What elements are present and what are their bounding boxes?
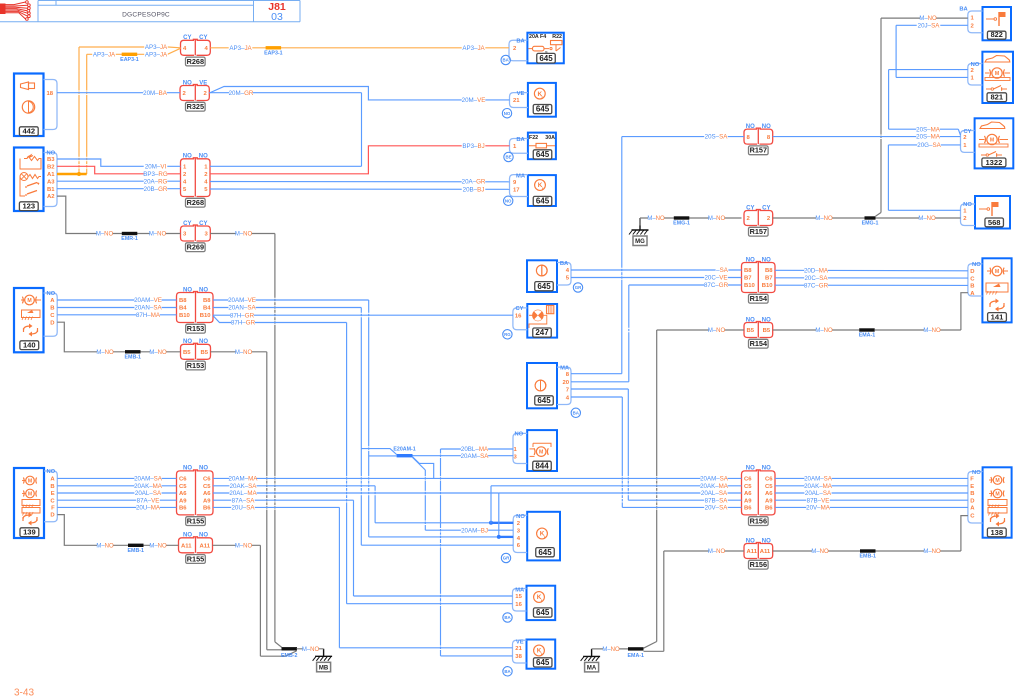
horn icon in 442 (21, 82, 29, 90)
svg-text:NO: NO (762, 124, 771, 130)
svg-text:20M–VE: 20M–VE (462, 97, 486, 104)
connector R153 (177, 293, 195, 323)
gray trunk up to 822 (876, 213, 882, 217)
svg-text:20B–GR: 20B–GR (144, 186, 168, 193)
svg-text:M–NO: M–NO (918, 216, 936, 222)
branch splice to 645 pin 3 20AM-BJ (413, 457, 426, 470)
label 844 (533, 461, 552, 470)
svg-text:A9: A9 (179, 498, 187, 504)
svg-text:M–NO: M–NO (815, 328, 833, 334)
component box 442 (horn unit) (14, 74, 44, 137)
svg-text:GR: GR (575, 285, 582, 290)
svg-text:B6: B6 (744, 506, 752, 512)
svg-text:C6: C6 (203, 477, 211, 483)
bracket 568 pins 1 2 NO (961, 204, 976, 226)
wire 20M-VI from 123 B3 (57, 159, 181, 166)
svg-text:VE: VE (199, 80, 207, 86)
svg-text:M–NO: M–NO (235, 232, 253, 238)
svg-text:20AK–MA: 20AK–MA (700, 483, 729, 490)
component box 141 (rear wiper motor) (982, 258, 1011, 322)
splice E20AM-1 (397, 454, 413, 457)
svg-text:B1: B1 (47, 187, 55, 193)
svg-text:R22: R22 (552, 34, 562, 40)
switch-flag icon in 568 (979, 208, 987, 210)
svg-text:20M–BA: 20M–BA (143, 90, 168, 97)
svg-text:B3: B3 (47, 157, 55, 163)
svg-text:645: 645 (537, 282, 551, 291)
svg-text:CY: CY (515, 306, 523, 312)
component box 140 (front wiper motor) (14, 288, 44, 352)
connector R157 top (744, 129, 757, 144)
splice EMB-1 (125, 350, 141, 353)
svg-text:20AM–VE: 20AM–VE (134, 297, 162, 304)
wire M-NO right of R153 down to EMB-2 (211, 351, 267, 353)
svg-text:645: 645 (539, 54, 553, 63)
earth code BA (571, 408, 580, 417)
connector R156 (742, 471, 758, 515)
wire 20AN-SA R153 to vertical (213, 307, 361, 309)
svg-text:568: 568 (988, 218, 1001, 227)
bracket 1322 pins 2 1 CY (961, 131, 975, 153)
UCH box 645 fuse F22 30A (528, 133, 556, 160)
earth code NO (504, 196, 513, 205)
svg-text:F: F (970, 477, 974, 483)
svg-text:NO: NO (47, 469, 56, 475)
svg-text:3-43: 3-43 (14, 688, 34, 698)
car icon in 1322 (980, 122, 1005, 129)
svg-text:M–NO: M–NO (919, 16, 937, 22)
svg-text:20AL–SA: 20AL–SA (135, 490, 162, 497)
svg-text:MA: MA (516, 174, 526, 180)
svg-text:BA: BA (516, 137, 525, 143)
earth code NO (502, 109, 511, 118)
svg-text:B: B (970, 491, 974, 497)
connector R268 top (AP3) (181, 40, 195, 55)
svg-text:M–NO: M–NO (235, 543, 253, 549)
svg-text:M–NO: M–NO (923, 549, 941, 555)
splice EMG-1 right (865, 216, 876, 219)
svg-text:B5: B5 (747, 328, 755, 334)
svg-text:20AM–BJ: 20AM–BJ (461, 527, 488, 534)
svg-text:D: D (970, 269, 974, 275)
svg-text:CY: CY (183, 35, 191, 41)
svg-text:C: C (50, 498, 55, 504)
bus row5 right R156 to 138 A 20V-MA (775, 506, 968, 508)
bus row2 20AK 139B to R155 (57, 485, 176, 487)
wire 20M-VE R325 to 645 (209, 87, 509, 100)
svg-text:20AL–SA: 20AL–SA (805, 490, 832, 497)
svg-text:NO: NO (199, 339, 208, 345)
svg-text:NO: NO (199, 466, 208, 472)
svg-text:k: k (542, 95, 544, 99)
wire 87H-GR branch to 645 pin16 (213, 316, 347, 323)
bracket 645 pin 21 VE (510, 93, 528, 108)
svg-text:20AM–SA: 20AM–SA (461, 453, 490, 460)
label 645 (535, 396, 554, 405)
label 645 (533, 196, 552, 205)
gray riser to R154 ground (644, 642, 657, 649)
svg-text:20A–RG: 20A–RG (144, 178, 168, 185)
earth code RG (503, 330, 512, 339)
svg-text:C5: C5 (765, 484, 773, 490)
svg-text:A11: A11 (760, 549, 771, 555)
component box 822 (983, 7, 1012, 40)
row2 resume to R156 (490, 486, 492, 523)
svg-text:NO: NO (514, 431, 523, 437)
svg-text:20S–MA: 20S–MA (916, 134, 941, 141)
svg-text:BA: BA (504, 669, 511, 674)
bracket 247 pin 16 CY (513, 308, 527, 330)
label 123 (19, 202, 38, 211)
bus row4 87A 139C to R155 (57, 499, 176, 501)
label 139 (20, 528, 39, 537)
svg-text:87C–GR: 87C–GR (804, 282, 829, 289)
label 1322 (982, 158, 1006, 167)
bus row1 R156 to 138 F (775, 477, 968, 479)
svg-text:B10: B10 (200, 313, 212, 319)
junction dot pin2 (489, 521, 493, 525)
svg-text:B4: B4 (203, 306, 211, 312)
wire SA 645 pin 4 to R154 B8 (571, 269, 742, 271)
svg-text:DGCPESOP9C: DGCPESOP9C (122, 12, 170, 19)
svg-text:A: A (50, 298, 55, 304)
bus row3 R155 to tap (213, 492, 499, 494)
svg-text:20G–SA: 20G–SA (917, 142, 941, 149)
svg-text:B7: B7 (744, 276, 752, 282)
svg-text:M–NO: M–NO (811, 549, 829, 555)
svg-text:B4: B4 (179, 306, 187, 312)
earth code BA (503, 667, 512, 676)
svg-text:B7: B7 (765, 276, 773, 282)
svg-text:15: 15 (515, 594, 522, 600)
svg-text:NO: NO (505, 198, 512, 203)
svg-text:NO: NO (183, 80, 192, 86)
svg-text:M–NO: M–NO (96, 232, 114, 238)
svg-text:VE: VE (517, 91, 525, 97)
wiper-washer icon in 141 (986, 283, 1008, 292)
connector R268 main (181, 159, 195, 197)
wire 20M-GR R325 to R268 (209, 92, 361, 94)
motor icons in 138 (993, 476, 1002, 485)
branch to splice upper (361, 449, 396, 455)
label 568 (985, 218, 1004, 227)
resistor icon in 247 (547, 305, 554, 313)
svg-text:B8: B8 (765, 268, 773, 274)
svg-text:B: B (50, 306, 54, 312)
svg-text:M–NO: M–NO (708, 216, 726, 222)
svg-text:EMB-1: EMB-1 (125, 354, 142, 360)
bus row4 right R156 to 138 D 87B-VE (775, 499, 968, 501)
svg-text:MA: MA (515, 588, 525, 594)
wire 20B-GR from 123 B1 (57, 188, 181, 190)
svg-text:NO: NO (746, 317, 755, 323)
title block frame (38, 0, 300, 2)
svg-text:16: 16 (515, 314, 522, 320)
svg-text:C6: C6 (765, 477, 773, 483)
bus row4 R155 to 645 pin 15 (213, 499, 354, 501)
bus row3 R156 to 138 B (775, 492, 968, 494)
wire 87H-GR R153 to 247 pin 16 (213, 314, 513, 316)
svg-text:M: M (995, 269, 999, 275)
svg-text:NO: NO (963, 202, 972, 208)
svg-text:AP3–JA: AP3–JA (145, 44, 168, 51)
switch icon in 1322 (981, 154, 986, 156)
svg-text:20AL–SA: 20AL–SA (701, 490, 728, 497)
wire M-NO ground MG to R157 (640, 217, 742, 219)
svg-text:645: 645 (536, 658, 550, 667)
svg-text:R269: R269 (187, 243, 204, 252)
wire M-NO from 140 D to EMB-1 (57, 322, 180, 352)
svg-text:B5: B5 (763, 328, 771, 334)
wire AP3-JA vertical 2 (86, 54, 88, 90)
wire M-NO ground MA to EMA-1 (592, 648, 628, 650)
wire 20BL-MA riser to 844 pin 1 (440, 449, 442, 454)
wire 20C-SA R154 to 141 C (775, 277, 968, 279)
svg-text:M–NO: M–NO (708, 328, 726, 334)
svg-text:NO: NO (762, 538, 771, 544)
svg-text:B6: B6 (179, 506, 187, 512)
wiper-washer icon in 140 (22, 310, 41, 318)
svg-text:M–NO: M–NO (923, 328, 941, 334)
wire M-NO from 123 A2 (57, 196, 181, 233)
component box 568 (975, 196, 1010, 229)
gray riser to R156 ground (644, 650, 664, 652)
svg-text:BA: BA (573, 410, 580, 415)
wire AP3-JA right of R268 with splice EAP3-1 (210, 47, 509, 49)
bracket 645 pins 21 38 VE (513, 640, 527, 663)
svg-text:BE: BE (505, 155, 511, 160)
svg-text:D: D (50, 320, 54, 326)
svg-text:NO: NO (47, 151, 56, 157)
svg-text:645: 645 (536, 105, 550, 114)
svg-text:30A: 30A (545, 135, 555, 141)
svg-text:NO: NO (746, 124, 755, 130)
svg-text:BP3–RG: BP3–RG (143, 171, 168, 178)
svg-text:A3: A3 (47, 179, 55, 185)
bus row5 R155 to 645 pin 21 (213, 506, 339, 508)
bus row5 20U 139F to R155 (57, 506, 176, 508)
bus row1 20AM 139A to R155 (57, 477, 176, 479)
fan motor icon (533, 310, 544, 321)
svg-text:87A–VE: 87A–VE (137, 497, 160, 504)
label 645 (536, 548, 555, 557)
svg-text:BP3–BJ: BP3–BJ (462, 143, 484, 150)
svg-text:20B–BJ: 20B–BJ (463, 186, 485, 193)
svg-text:CY: CY (746, 205, 754, 211)
svg-text:D: D (970, 498, 974, 504)
svg-text:20AM–VE: 20AM–VE (228, 297, 256, 304)
svg-text:R156: R156 (750, 560, 767, 569)
svg-text:B10: B10 (762, 283, 774, 289)
wire M-NO right of R156 to EMB-1 to 138 C (773, 550, 860, 552)
svg-text:A1: A1 (47, 172, 55, 178)
svg-text:NO: NO (762, 257, 771, 263)
svg-text:645: 645 (536, 608, 550, 617)
wire 20AN-SA 140 B to R153 B4 (57, 307, 176, 309)
svg-text:123: 123 (22, 202, 35, 211)
svg-text:RG: RG (504, 332, 511, 337)
washer icons in 138 (988, 500, 1007, 506)
splice EMB-2 (282, 647, 298, 650)
svg-text:B6: B6 (203, 506, 211, 512)
svg-text:20S–MA: 20S–MA (916, 126, 941, 133)
junction dot A1 (77, 172, 81, 176)
connector R156 ground (744, 544, 757, 559)
svg-text:CY: CY (199, 35, 207, 41)
svg-text:M–NO: M–NO (302, 647, 320, 653)
svg-text:NO: NO (972, 262, 981, 268)
wire M-NO EMG-1 to 568 pin 2 (876, 217, 961, 219)
svg-text:NO: NO (972, 470, 981, 476)
row3 tap down to 645 pin 4 (498, 493, 500, 537)
wire 20M-GR vertical (361, 93, 363, 167)
svg-text:A9: A9 (744, 498, 752, 504)
label 645 (533, 608, 552, 617)
earth code BA (501, 55, 510, 64)
svg-text:87H–MA: 87H–MA (136, 312, 161, 319)
svg-text:AP3–JA: AP3–JA (229, 45, 252, 52)
label 141 (988, 313, 1007, 322)
wire 20S-MA 821 pin 2 to 1322 pin 2 (889, 69, 968, 71)
bracket 645 pin 1 BA (510, 139, 528, 154)
label 138 (987, 528, 1006, 537)
svg-text:BA: BA (959, 7, 968, 13)
motor icon in 1322 (987, 134, 997, 144)
svg-text:139: 139 (23, 528, 36, 537)
wire 20S-MA R157 to 1322 pin 2 (773, 136, 961, 138)
svg-text:F22: F22 (529, 135, 538, 141)
svg-text:R156: R156 (750, 517, 767, 526)
wire A1 feed thick (57, 173, 87, 176)
svg-text:20AN–SA: 20AN–SA (134, 305, 162, 312)
wire 87H-MA 140 C to R153 B10 (57, 314, 176, 316)
svg-text:20C–SA: 20C–SA (804, 275, 828, 282)
svg-text:M: M (28, 479, 32, 485)
earth code GR (573, 283, 582, 292)
wire M-NO right of R157 to EMG-1 (773, 217, 865, 219)
svg-text:NO: NO (746, 538, 755, 544)
wire 20J-SA 822 pin 2 to 821 pin 1 (896, 24, 968, 26)
UCH box 645 relay/fuse F4 R22 (527, 33, 563, 64)
splice EMA-1 (628, 647, 644, 650)
svg-text:M–NO: M–NO (602, 647, 620, 653)
earth code BE (504, 152, 513, 161)
connector R154 ground (744, 323, 757, 338)
label 821 (987, 93, 1007, 102)
svg-text:EMB-2: EMB-2 (281, 653, 298, 659)
svg-text:BA: BA (503, 58, 510, 63)
svg-text:AP3–JA: AP3–JA (93, 51, 116, 58)
svg-text:MA: MA (560, 365, 570, 371)
branch into splice E20AM-1 (369, 455, 397, 457)
svg-text:GR: GR (503, 556, 510, 561)
splice EMB-1 right (860, 549, 876, 552)
connector R153 ground (181, 344, 195, 359)
label 442 (19, 127, 38, 136)
svg-text:M–NO: M–NO (149, 232, 167, 238)
svg-text:20M–VI: 20M–VI (145, 163, 167, 170)
svg-text:141: 141 (991, 312, 1004, 321)
connector R155 ground (179, 538, 195, 553)
svg-text:844: 844 (535, 461, 549, 470)
svg-text:NO: NO (183, 339, 192, 345)
ground MG (639, 218, 641, 230)
svg-text:EMA-1: EMA-1 (628, 653, 645, 659)
svg-text:E: E (970, 484, 974, 490)
svg-text:B6: B6 (765, 506, 773, 512)
wire 20C-VE 645 pin 5 to R154 B7 (571, 277, 742, 279)
svg-text:C: C (970, 514, 975, 520)
arrows icon in 140 (24, 326, 31, 330)
svg-text:AP3–JA: AP3–JA (462, 45, 485, 52)
branch splice to bus row1 (413, 457, 434, 479)
connector R269 (181, 226, 195, 241)
svg-text:20AK–SA: 20AK–SA (230, 483, 258, 490)
svg-text:CY: CY (183, 221, 191, 227)
wire 20A-GR to 645 pin 9 (210, 181, 510, 183)
svg-text:20D–MA: 20D–MA (804, 267, 829, 274)
svg-text:M–NO: M–NO (708, 549, 726, 555)
harness fan-out icon (0, 4, 6, 15)
svg-text:B5: B5 (200, 350, 208, 356)
svg-text:AP3–JA: AP3–JA (145, 51, 168, 58)
bracket of 123 pins (44, 153, 58, 207)
bracket of 140 pins (44, 293, 58, 336)
label 645 (533, 105, 552, 114)
wire 20AM-VE R153 to splice vertical (213, 299, 369, 301)
svg-text:16: 16 (515, 602, 522, 608)
svg-text:VE: VE (516, 640, 524, 646)
svg-text:20AM–SA: 20AM–SA (134, 476, 163, 483)
svg-text:138: 138 (990, 528, 1003, 537)
junction dot pin4 (497, 535, 501, 539)
svg-text:20A F4: 20A F4 (529, 34, 546, 40)
bracket of 442 pin 18 (44, 80, 58, 130)
connector R154 (742, 263, 758, 293)
svg-text:CY: CY (199, 221, 207, 227)
svg-text:20M–GR: 20M–GR (229, 90, 254, 97)
svg-text:C: C (50, 313, 55, 319)
motor icon in 140 (25, 295, 35, 305)
svg-text:18: 18 (46, 91, 53, 97)
svg-text:21: 21 (513, 98, 520, 104)
svg-text:442: 442 (22, 127, 35, 136)
wire AP3-JA top run (79, 46, 168, 48)
bracket of 139 pins (44, 471, 57, 522)
svg-text:A: A (970, 506, 975, 512)
component box 123 (stalk switch) (14, 148, 44, 212)
UCH box 645 pins 4 5 (527, 260, 557, 292)
svg-text:NO: NO (47, 291, 56, 297)
svg-text:87A–SA: 87A–SA (232, 497, 256, 504)
svg-text:NO: NO (183, 533, 192, 539)
bracket 645 pins 2 3 4 6 NO (513, 515, 527, 552)
earth code BA (503, 613, 512, 622)
row2 tap down to 645 pin 2 (374, 486, 376, 491)
svg-text:A6: A6 (179, 491, 187, 497)
svg-text:NO: NO (516, 514, 525, 520)
svg-text:A11: A11 (747, 549, 758, 555)
label 645 (533, 658, 552, 667)
svg-text:A6: A6 (765, 491, 773, 497)
svg-text:821: 821 (990, 93, 1003, 102)
UCH box 645 (K) pins 9 17 (528, 175, 556, 206)
svg-text:645: 645 (536, 150, 550, 159)
svg-text:NO: NO (504, 111, 511, 116)
component box 821 (982, 52, 1013, 103)
wire BP3-RG from 123 B2 (57, 166, 181, 174)
connector R325 (180, 86, 194, 101)
